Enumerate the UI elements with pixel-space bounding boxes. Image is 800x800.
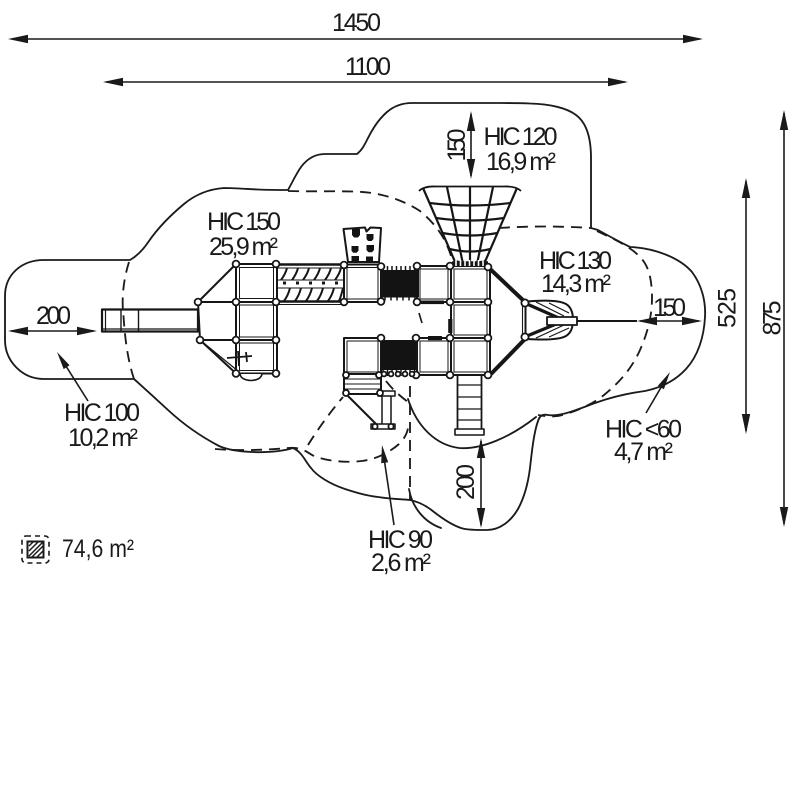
svg-text:200: 200	[452, 464, 480, 500]
svg-text:2,6 m²: 2,6 m²	[371, 549, 431, 577]
deep bubble left rounded corner	[409, 489, 441, 528]
svg-text:HIC 150: HIC 150	[207, 208, 281, 236]
svg-text:150: 150	[443, 129, 471, 162]
leader HIC90	[384, 458, 394, 525]
svg-text:875: 875	[759, 301, 787, 336]
platform row 2 col 1	[417, 338, 451, 375]
legend hatched square	[28, 542, 44, 558]
inner platform borders	[240, 268, 488, 373]
legend dashed square	[22, 536, 49, 563]
dim 150 vertical top	[470, 114, 472, 176]
small step tab under hex	[240, 374, 262, 381]
svg-text:14,3 m²: 14,3 m²	[541, 270, 611, 298]
svg-text:HIC 100: HIC 100	[64, 399, 140, 427]
svg-text:HIC 120: HIC 120	[484, 123, 558, 151]
interior solid shallow curve around ladder	[408, 399, 536, 448]
svg-text:25,9 m²: 25,9 m²	[209, 233, 278, 261]
bridge rungs upper	[281, 268, 341, 280]
cone net climber	[423, 187, 517, 264]
dashed boundary HIC100/HIC150 crossing slide	[123, 262, 134, 379]
platform row 1 col 1	[417, 266, 451, 302]
slide tube left	[102, 310, 198, 332]
ladder bottom center	[457, 375, 459, 431]
leader HIC100	[64, 363, 88, 401]
STRUCTURE	[102, 186, 637, 435]
svg-text:525: 525	[714, 288, 742, 328]
dashed arc right of HIC90 steps	[386, 381, 408, 402]
dashed boundary HIC150/HIC120 around cone (left)	[288, 191, 453, 264]
bow slide assembly right	[489, 268, 525, 302]
climbing wall trapezoid	[344, 228, 382, 263]
dim 525 vertical	[745, 181, 747, 431]
climbing holds	[352, 229, 375, 263]
bridge deck dots	[283, 282, 338, 285]
narrow chute	[378, 391, 395, 396]
platform left of bottom wall	[344, 338, 381, 375]
dim 200 vertical bottom	[480, 441, 482, 525]
climbing wall black bottom	[381, 340, 416, 370]
hex tower platforms	[236, 264, 277, 302]
svg-text:10,2 m²: 10,2 m²	[68, 424, 138, 452]
dim 1450	[12, 38, 700, 40]
svg-text:16,9 m²: 16,9 m²	[486, 148, 556, 176]
ZONE OUTLINES	[5, 103, 705, 530]
svg-text:200: 200	[36, 302, 71, 330]
dashed vertical boundary x410	[409, 386, 411, 500]
dim 200 left	[11, 330, 94, 332]
dim 150 right	[640, 320, 699, 322]
platform left of top wall	[344, 265, 381, 303]
dashed arc left of HIC90 steps	[308, 397, 343, 445]
bridge rungs lower	[284, 288, 343, 301]
svg-text:4,7 m²: 4,7 m²	[614, 438, 673, 466]
svg-text:74,6 m²: 74,6 m²	[62, 535, 134, 563]
dim 1100	[106, 81, 625, 83]
bridge rails	[277, 263, 344, 265]
HIC90 steps platform	[344, 374, 381, 394]
platform mid col 2	[451, 302, 490, 338]
dim 875 vertical	[783, 113, 785, 524]
dashed boundary HIC130 top	[499, 227, 591, 229]
climbing wall black top	[380, 270, 419, 298]
posts	[195, 261, 529, 430]
dashed bottom boundary + HIC90 pocket	[215, 428, 408, 462]
table symbol inside hex	[227, 351, 252, 366]
leader HIC60	[646, 384, 663, 413]
svg-text:150: 150	[653, 294, 686, 322]
diagonal slide pole	[347, 395, 378, 426]
entry bars in open mid col1	[421, 301, 444, 305]
platform row 1 col 2	[451, 266, 490, 302]
svg-text:1450: 1450	[332, 9, 381, 37]
DIMENSIONS	[8, 35, 788, 528]
outer safety-zone cloud outline (solid)	[5, 103, 705, 530]
svg-text:1100: 1100	[345, 53, 391, 81]
dashed boundary HIC130 right big arc	[538, 231, 652, 416]
platform row 2 col 2	[451, 338, 490, 375]
